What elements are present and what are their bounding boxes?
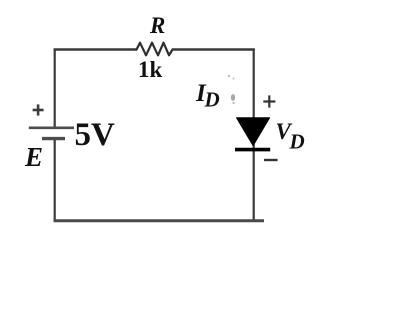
svg-text:D: D (204, 88, 220, 112)
wire bottom rail (54, 219, 264, 222)
wire left vertical upper (E top to top rail) (54, 49, 56, 128)
diode current label ID (195, 80, 220, 112)
wire top rail right segment (172, 48, 255, 50)
svg-text:1k: 1k (138, 57, 163, 82)
battery plus sign (33, 104, 44, 115)
svg-text:E: E (24, 142, 43, 172)
wire left vertical lower (E bottom to bottom rail) (54, 139, 56, 222)
wire top rail left segment (54, 48, 137, 50)
resistor R zigzag body (137, 43, 173, 56)
diode voltage label VD (276, 119, 305, 154)
battery E negative plate (short thick) (42, 137, 65, 140)
svg-text:D: D (289, 130, 305, 154)
diode D1 cathode bar (235, 148, 270, 152)
wire right vertical (253, 49, 255, 222)
svg-text:5V: 5V (75, 117, 116, 153)
faded current arrow remnant marks (228, 75, 236, 105)
diode anode plus sign (263, 95, 275, 107)
svg-text:R: R (149, 13, 165, 38)
battery E positive plate (long) (29, 127, 74, 130)
diode D1 triangle (anode) (237, 118, 270, 146)
diode cathode minus sign (264, 159, 278, 161)
